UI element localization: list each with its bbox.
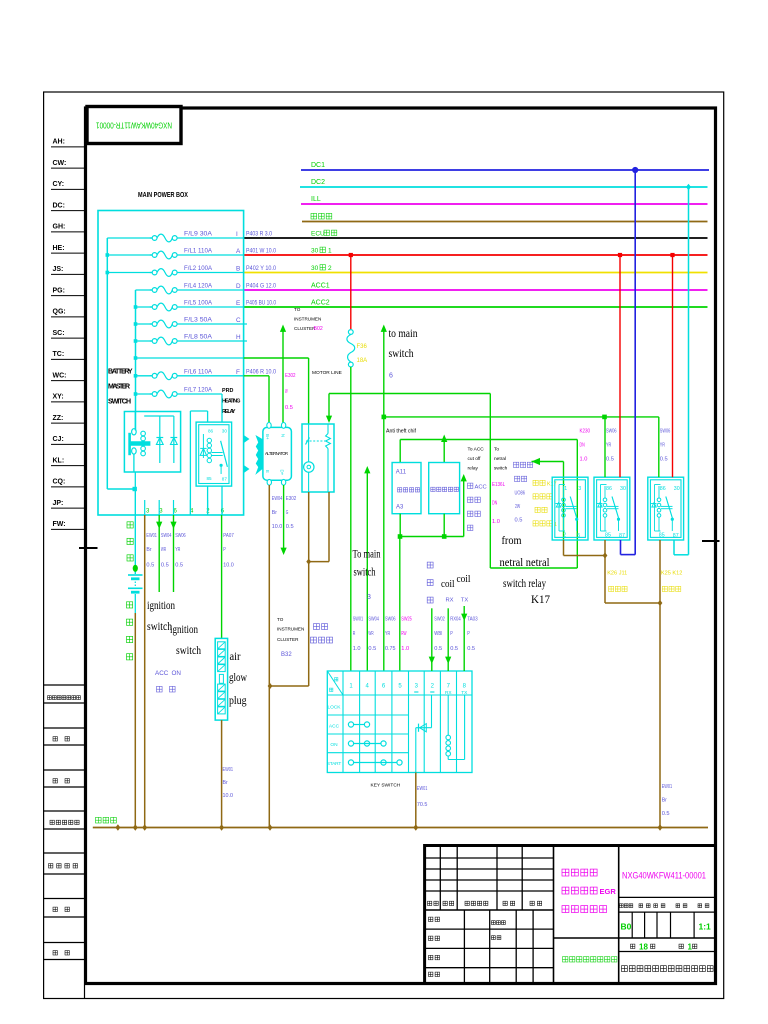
fuse F/L2 [150, 272, 152, 274]
svg-text:To ACC: To ACC [468, 447, 485, 453]
svg-text:SW06: SW06 [660, 429, 671, 435]
svg-text:F/L2 100A: F/L2 100A [184, 265, 213, 272]
svg-text:To main: To main [353, 549, 381, 561]
svg-text:ILL: ILL [311, 196, 321, 203]
junction DC1 x635 [633, 167, 638, 172]
svg-text:INSTRUMEN: INSTRUMEN [294, 317, 321, 322]
fuse F/L1 [150, 254, 152, 256]
svg-text:netral netral: netral netral [500, 555, 551, 569]
svg-text:F: F [236, 369, 240, 376]
svg-text:EW04: EW04 [272, 496, 283, 502]
fuse F/L5 [150, 306, 152, 308]
svg-text:AH:: AH: [53, 139, 65, 146]
headers ban-ben-hao tu-yang-biao-ji zhi-liang bi-li [620, 904, 624, 908]
svg-text:2: 2 [328, 265, 332, 272]
label miao-tu [53, 737, 57, 741]
system name zong-dian-yuan-yu-qi-dong-xi-tong [563, 957, 568, 962]
svg-text:ON: ON [330, 742, 338, 748]
svg-text:SWITCH: SWITCH [108, 399, 131, 406]
svg-text:YR: YR [606, 443, 611, 449]
fuse F/L8 [150, 340, 152, 342]
svg-text:K26 J11: K26 J11 [607, 571, 627, 577]
svg-text:3: 3 [367, 594, 371, 601]
svg-text:EW01: EW01 [417, 786, 428, 792]
svg-text:70.5: 70.5 [417, 802, 428, 808]
svg-text:XY:: XY: [53, 394, 64, 401]
svg-text:F/L5 100A: F/L5 100A [184, 300, 213, 307]
svg-text:0.5: 0.5 [285, 405, 294, 411]
svg-text:10.0: 10.0 [272, 524, 283, 530]
wire 30dian1 to K26 [619, 255, 621, 477]
svg-text:coil: coil [441, 578, 455, 590]
svg-text:0.5: 0.5 [146, 563, 155, 569]
bus 30-1 [244, 254, 708, 256]
header row biao-ji chu-shu tong-zhi-shu-hao qian-zi ri-qi [428, 901, 432, 905]
wire starter relay grounds [308, 492, 310, 686]
svg-text:0.5: 0.5 [175, 563, 184, 569]
svg-text:ZZ:: ZZ: [53, 415, 64, 422]
svg-text:N: N [281, 434, 286, 437]
wire EW01 brown [144, 515, 146, 828]
svg-text:SW06: SW06 [606, 429, 617, 435]
svg-text:TX: TX [461, 598, 469, 604]
svg-text:K25 K12: K25 K12 [661, 571, 682, 577]
svg-text:0.5: 0.5 [660, 457, 669, 463]
fuse bus left vertical A [106, 238, 108, 489]
svg-text:WBl: WBl [434, 631, 442, 637]
bus power ground dian-yuan-di [302, 221, 708, 223]
svg-text:F/L9 30A: F/L9 30A [184, 231, 213, 238]
svg-text:P: P [450, 631, 453, 637]
svg-text:P: P [223, 547, 226, 553]
svg-text:To: To [494, 447, 499, 453]
svg-text:6: 6 [389, 373, 393, 380]
wire A11 bottom [399, 514, 401, 537]
svg-text:YR: YR [660, 443, 665, 449]
key switch diode [431, 695, 433, 728]
svg-text:DC2: DC2 [311, 179, 325, 186]
relay K17 netral switch relay [552, 477, 588, 540]
battery G1 [128, 575, 143, 592]
wire PA07 to air glow plug [221, 515, 223, 638]
left side zone labels [51, 139, 85, 530]
svg-text:SW25: SW25 [401, 617, 412, 623]
wire battery junction L [107, 488, 134, 490]
svg-text:F/L1 110A: F/L1 110A [184, 248, 213, 255]
svg-text:B0: B0 [621, 922, 632, 932]
svg-text:EW01: EW01 [223, 767, 234, 773]
label ri-qi [53, 951, 57, 955]
outer border frame [44, 92, 724, 999]
svg-text:0.5: 0.5 [450, 646, 459, 652]
wire alternator E to ground [268, 485, 270, 828]
svg-text:F/L6 110A: F/L6 110A [184, 368, 213, 375]
fuse bus left vertical B [135, 290, 137, 431]
svg-text:to main: to main [389, 326, 418, 340]
svg-text:0.5: 0.5 [662, 811, 671, 817]
junction 30-1 x672.5 [670, 253, 674, 257]
wire master switch to battery [134, 472, 136, 489]
wire net y393 [329, 393, 490, 395]
wire PRD pin30 from F/L7 [221, 394, 223, 422]
svg-text:G: G [286, 510, 289, 516]
wire SW06 to main switch 6 [383, 327, 385, 672]
svg-text:air: air [230, 651, 241, 663]
svg-text:START: START [327, 761, 342, 767]
svg-text:CY:: CY: [53, 181, 65, 188]
wire net y417 [384, 416, 659, 418]
svg-text:I: I [236, 231, 238, 238]
svg-text:B32: B32 [281, 652, 292, 658]
key switch coil 7-8 [447, 695, 449, 735]
svg-text:KEY SWITCH: KEY SWITCH [371, 783, 401, 789]
label dian-ping-di-xian vertical [127, 602, 133, 608]
svg-text:RX: RX [446, 598, 454, 604]
sheet count gong 18 zhang di 1 zhang [631, 944, 635, 948]
svg-text:from: from [502, 533, 523, 547]
stub row H [177, 340, 247, 342]
label dian-ping-xian vertical [127, 522, 133, 528]
wire ground collector [605, 602, 660, 604]
svg-text:switch relay: switch relay [503, 576, 546, 590]
svg-text:TC:: TC: [53, 351, 65, 358]
wire SW01 to key switch [350, 367, 352, 671]
wire SW06 [173, 515, 175, 592]
svg-text:87: 87 [222, 477, 228, 482]
svg-text:ALTERNATOR: ALTERNATOR [265, 451, 288, 456]
fuse F/L4 [150, 289, 152, 291]
wire net y439 [400, 439, 577, 441]
svg-text:CQ:: CQ: [53, 479, 66, 486]
bus ECU power [244, 237, 708, 239]
relay K25 [648, 477, 684, 540]
svg-text:Anti theft chif: Anti theft chif [386, 429, 417, 435]
svg-text:86: 86 [606, 486, 612, 492]
svg-text:TO: TO [294, 307, 301, 312]
label di-tu-zong-hao [49, 864, 53, 868]
wire SW04 arrow to main switch 3 [366, 468, 368, 671]
svg-text:0.5: 0.5 [368, 646, 377, 652]
wire row to main switch (green row) [136, 357, 244, 359]
bus 30-2 [244, 272, 708, 274]
svg-text:MOTOR LINE: MOTOR LINE [312, 370, 342, 376]
battery master switch box [124, 412, 180, 473]
svg-text:F36: F36 [357, 344, 368, 350]
svg-text:coil: coil [457, 573, 471, 585]
svg-text:W: W [285, 389, 288, 395]
svg-text:86: 86 [660, 486, 666, 492]
cell pi-zhun [492, 936, 496, 940]
bus ACC1 [244, 289, 708, 291]
svg-text:E: E [236, 300, 240, 307]
wire K17 pin2 ground [563, 540, 565, 556]
svg-text:30: 30 [222, 428, 228, 433]
label dian-yuan-di [311, 213, 317, 219]
svg-text:30: 30 [311, 248, 319, 255]
svg-text:WR: WR [368, 631, 373, 637]
svg-text:87: 87 [673, 533, 679, 539]
svg-text:D+: D+ [280, 470, 285, 476]
junction DC2 x688 [686, 184, 691, 191]
svg-text:0.5: 0.5 [161, 563, 170, 569]
wire 30dian1 tap [350, 255, 352, 330]
svg-text:P: P [467, 631, 470, 637]
svg-text:86: 86 [208, 428, 214, 433]
svg-text:87: 87 [619, 533, 625, 539]
svg-text:1.0: 1.0 [353, 646, 362, 652]
wire to ACC cutoff relay arrow [463, 476, 465, 537]
svg-text:B: B [236, 266, 240, 273]
svg-text:2W: 2W [515, 504, 520, 510]
wire net x490 [489, 394, 491, 569]
svg-text:ignition: ignition [170, 624, 198, 636]
svg-text:KL:: KL: [53, 457, 65, 464]
wire K25 pin85 ground [659, 540, 661, 603]
svg-text:UO86: UO86 [515, 491, 526, 497]
label fu-lian pin-jie-xian [314, 624, 320, 630]
svg-text:P402 Y 10.0: P402 Y 10.0 [246, 265, 276, 272]
svg-text:BATTERY: BATTERY [108, 369, 133, 376]
svg-text:ACC: ACC [155, 670, 169, 677]
svg-text:ON: ON [172, 670, 182, 677]
wire PRD pin86 feed [189, 411, 191, 515]
svg-text:DC1: DC1 [311, 162, 325, 169]
svg-text:85: 85 [659, 533, 665, 539]
svg-text:0.5: 0.5 [286, 524, 295, 530]
svg-text:E302: E302 [285, 373, 296, 379]
svg-text:SW06: SW06 [175, 533, 186, 539]
svg-text:P405 BU 10.0: P405 BU 10.0 [246, 300, 276, 307]
wire SW04 [158, 515, 160, 592]
svg-text:Br: Br [223, 780, 228, 786]
label zi-kong-dang suo-guan UO86 2W 0.5 [514, 462, 519, 467]
left strip lower vertical [84, 985, 86, 999]
svg-text:0.5: 0.5 [467, 646, 476, 652]
wire DC1 to K26 pin87 [621, 170, 636, 555]
svg-text:WC:: WC: [53, 372, 67, 379]
svg-text:30: 30 [674, 486, 680, 492]
wire EW01 key switch ground [415, 773, 417, 828]
fuse F/L6 [150, 375, 152, 377]
label dian-yuan-di ground [96, 817, 102, 823]
svg-text:Br: Br [272, 510, 277, 516]
svg-text:F/L8 50A: F/L8 50A [184, 334, 213, 341]
wire SW02 lamp [431, 608, 433, 671]
fuse F/L7 [150, 393, 152, 395]
svg-text:10.0: 10.0 [223, 793, 234, 799]
svg-text:FW:: FW: [53, 521, 66, 528]
bottom-left record boxes [44, 685, 85, 960]
svg-text:MAIN POWER BOX: MAIN POWER BOX [138, 190, 188, 199]
svg-text:5: 5 [577, 533, 580, 539]
key switch contacts ON row [354, 743, 381, 745]
svg-text:JP:: JP: [53, 500, 64, 507]
svg-text:TO: TO [277, 617, 284, 622]
svg-text:P401 W 10.0: P401 W 10.0 [246, 248, 276, 255]
svg-text:HEATING: HEATING [222, 399, 241, 405]
svg-text:0.5: 0.5 [515, 518, 524, 524]
svg-text:1.0: 1.0 [580, 457, 589, 463]
wire green row to starter relay [244, 357, 309, 359]
label zhi ACC qie-duan ji-dian-qi [468, 483, 473, 488]
svg-text:3: 3 [578, 486, 581, 492]
svg-text:B02: B02 [314, 326, 323, 332]
svg-text:RX04: RX04 [450, 617, 461, 623]
label kong-tiao K17 ji-dian-qi xin-yong qi-dong-ji 1 [533, 480, 538, 485]
label qian-zi [53, 907, 57, 911]
svg-text:YR: YR [175, 547, 180, 553]
svg-text:P404 G 12.0: P404 G 12.0 [246, 283, 276, 290]
wire SW25 to key switch col5 [399, 537, 401, 672]
label jie-tong-yong-jian-deng-ji [48, 696, 52, 700]
bus ACC2 [244, 306, 708, 308]
svg-text:DC:: DC: [53, 202, 65, 209]
svg-text:A: A [236, 248, 241, 255]
svg-text:ignition: ignition [147, 600, 175, 612]
ground bus dian-yuan-di [93, 827, 708, 829]
svg-text:INSTRUMEN: INSTRUMEN [277, 627, 304, 632]
alternator G2 [263, 427, 292, 480]
svg-text:JS:: JS: [53, 266, 64, 273]
svg-text:PRD: PRD [222, 388, 233, 394]
svg-text:ACC1: ACC1 [311, 283, 330, 290]
box edge arrow 1 [244, 436, 249, 443]
svg-text:H: H [236, 334, 241, 341]
svg-text:Br: Br [146, 547, 151, 553]
svg-text:B+: B+ [265, 434, 270, 440]
svg-text:WR: WR [161, 547, 166, 553]
key switch contacts ACC row [354, 724, 365, 726]
svg-text:NXG40WKAW11TR-00001: NXG40WKAW11TR-00001 [96, 121, 172, 130]
bus ILL [301, 203, 708, 205]
title label box top-left [87, 107, 181, 144]
svg-text:F/L7 120A: F/L7 120A [184, 387, 213, 394]
wire K26 coil feed [604, 417, 606, 477]
main power box outline [98, 211, 244, 516]
wire RX04 [447, 608, 449, 671]
fuse row outputs to box edge [177, 237, 244, 239]
svg-text:P403 R 3.0: P403 R 3.0 [246, 231, 272, 238]
label dian dian [157, 686, 163, 692]
cell biao-zhun-hua [492, 921, 496, 925]
drawing title dian-qi-yuan-li-tu [562, 906, 569, 913]
fuse F/L9 [150, 237, 152, 239]
wire K26 pin85 ground [604, 540, 606, 603]
wire battery negative brown [134, 613, 136, 828]
svg-text:Br: Br [662, 798, 667, 804]
wire immo top feed [443, 440, 445, 463]
svg-text:netral: netral [494, 456, 506, 462]
svg-text:SW04: SW04 [368, 617, 379, 623]
centering tick left [79, 547, 98, 549]
wire PRD pin85 down [207, 486, 209, 515]
svg-text:switch: switch [147, 621, 172, 633]
svg-text:K230: K230 [580, 429, 591, 435]
svg-text:RELAY: RELAY [222, 409, 236, 415]
svg-text:RW: RW [401, 631, 406, 637]
svg-text:NXG40WKFW411-00001: NXG40WKFW411-00001 [622, 871, 706, 882]
svg-text:F/L4 120A: F/L4 120A [184, 283, 213, 290]
centering tick right [702, 540, 720, 542]
junction battery top [133, 565, 138, 572]
junction 30-1 x620 [618, 253, 622, 257]
svg-text:GH:: GH: [53, 224, 66, 231]
wire net right x577 [576, 440, 578, 569]
svg-text:cut off: cut off [468, 456, 482, 462]
wire alternator B+ feed (from F/L6) [244, 375, 269, 377]
svg-text:EW01: EW01 [662, 784, 673, 790]
svg-text:18: 18 [639, 943, 648, 952]
svg-text:10.0: 10.0 [223, 563, 234, 569]
svg-text:switch: switch [354, 567, 376, 579]
svg-text:plug: plug [229, 695, 247, 707]
svg-text:switch: switch [389, 346, 414, 360]
label zi-mie-deng vertical [427, 562, 433, 568]
svg-text:1: 1 [328, 248, 332, 255]
svg-text:switch: switch [494, 466, 508, 472]
svg-text:ECU: ECU [311, 231, 325, 238]
svg-text:CLUSTER: CLUSTER [277, 637, 299, 642]
svg-text:2: 2 [563, 533, 566, 539]
svg-text:LOCK: LOCK [328, 705, 342, 711]
starter relay K? [302, 424, 334, 492]
immobilizer unit [429, 463, 460, 514]
svg-text:ACC: ACC [329, 724, 340, 730]
stub row C [177, 323, 247, 325]
master switch internals [130, 412, 178, 472]
bus DC1 [301, 169, 709, 171]
label miao-jiao [53, 779, 57, 783]
wire PRD pin87 down [221, 486, 223, 515]
svg-text:A11: A11 [396, 470, 407, 476]
wire battery to ground cyan part [134, 594, 136, 613]
svg-text:QG:: QG: [53, 309, 66, 316]
fuse F/L3 [150, 323, 152, 325]
svg-text:30: 30 [620, 486, 626, 492]
bus DC2 [300, 186, 708, 188]
svg-text:glow: glow [229, 672, 248, 684]
svg-text:SW01: SW01 [353, 617, 364, 623]
svg-text:ACC2: ACC2 [311, 300, 330, 307]
wire alternator D+ E302 [283, 485, 285, 553]
svg-text:CW:: CW: [53, 160, 67, 167]
PRD heating relay K? [196, 422, 232, 486]
wire air glow plug ground [221, 720, 223, 827]
svg-text:DN: DN [580, 443, 585, 449]
junction 30-1 x350.8 [349, 253, 353, 257]
svg-text:D: D [236, 283, 241, 290]
company nan-jing-xu-gong-qi-che-zhi-zao-you-xian-gong-si [622, 966, 628, 972]
wire DC2 to K25 pin87 [688, 187, 690, 555]
svg-text:30: 30 [311, 265, 319, 272]
wire immo bottom [443, 514, 445, 537]
fuse F36 18A [348, 330, 353, 335]
svg-text:1: 1 [564, 486, 567, 492]
wire net y536 [400, 536, 464, 538]
key switch contacts START row [354, 762, 397, 764]
svg-text:85: 85 [605, 533, 611, 539]
wire relay coil feed with arrow [328, 394, 330, 422]
wire 30dian1 to K25 [672, 255, 674, 477]
svg-text:F/L3 50A: F/L3 50A [184, 317, 213, 324]
svg-text:K17: K17 [531, 594, 550, 606]
svg-text:1:1: 1:1 [699, 922, 712, 932]
svg-text:CJ:: CJ: [53, 436, 64, 443]
ground bus junctions [115, 824, 120, 830]
label jiu-di-tu-zong-hao [50, 820, 54, 824]
svg-text:0.75: 0.75 [385, 646, 396, 652]
row labels she-ji jiao-he shen-he gong-yi [429, 917, 433, 921]
